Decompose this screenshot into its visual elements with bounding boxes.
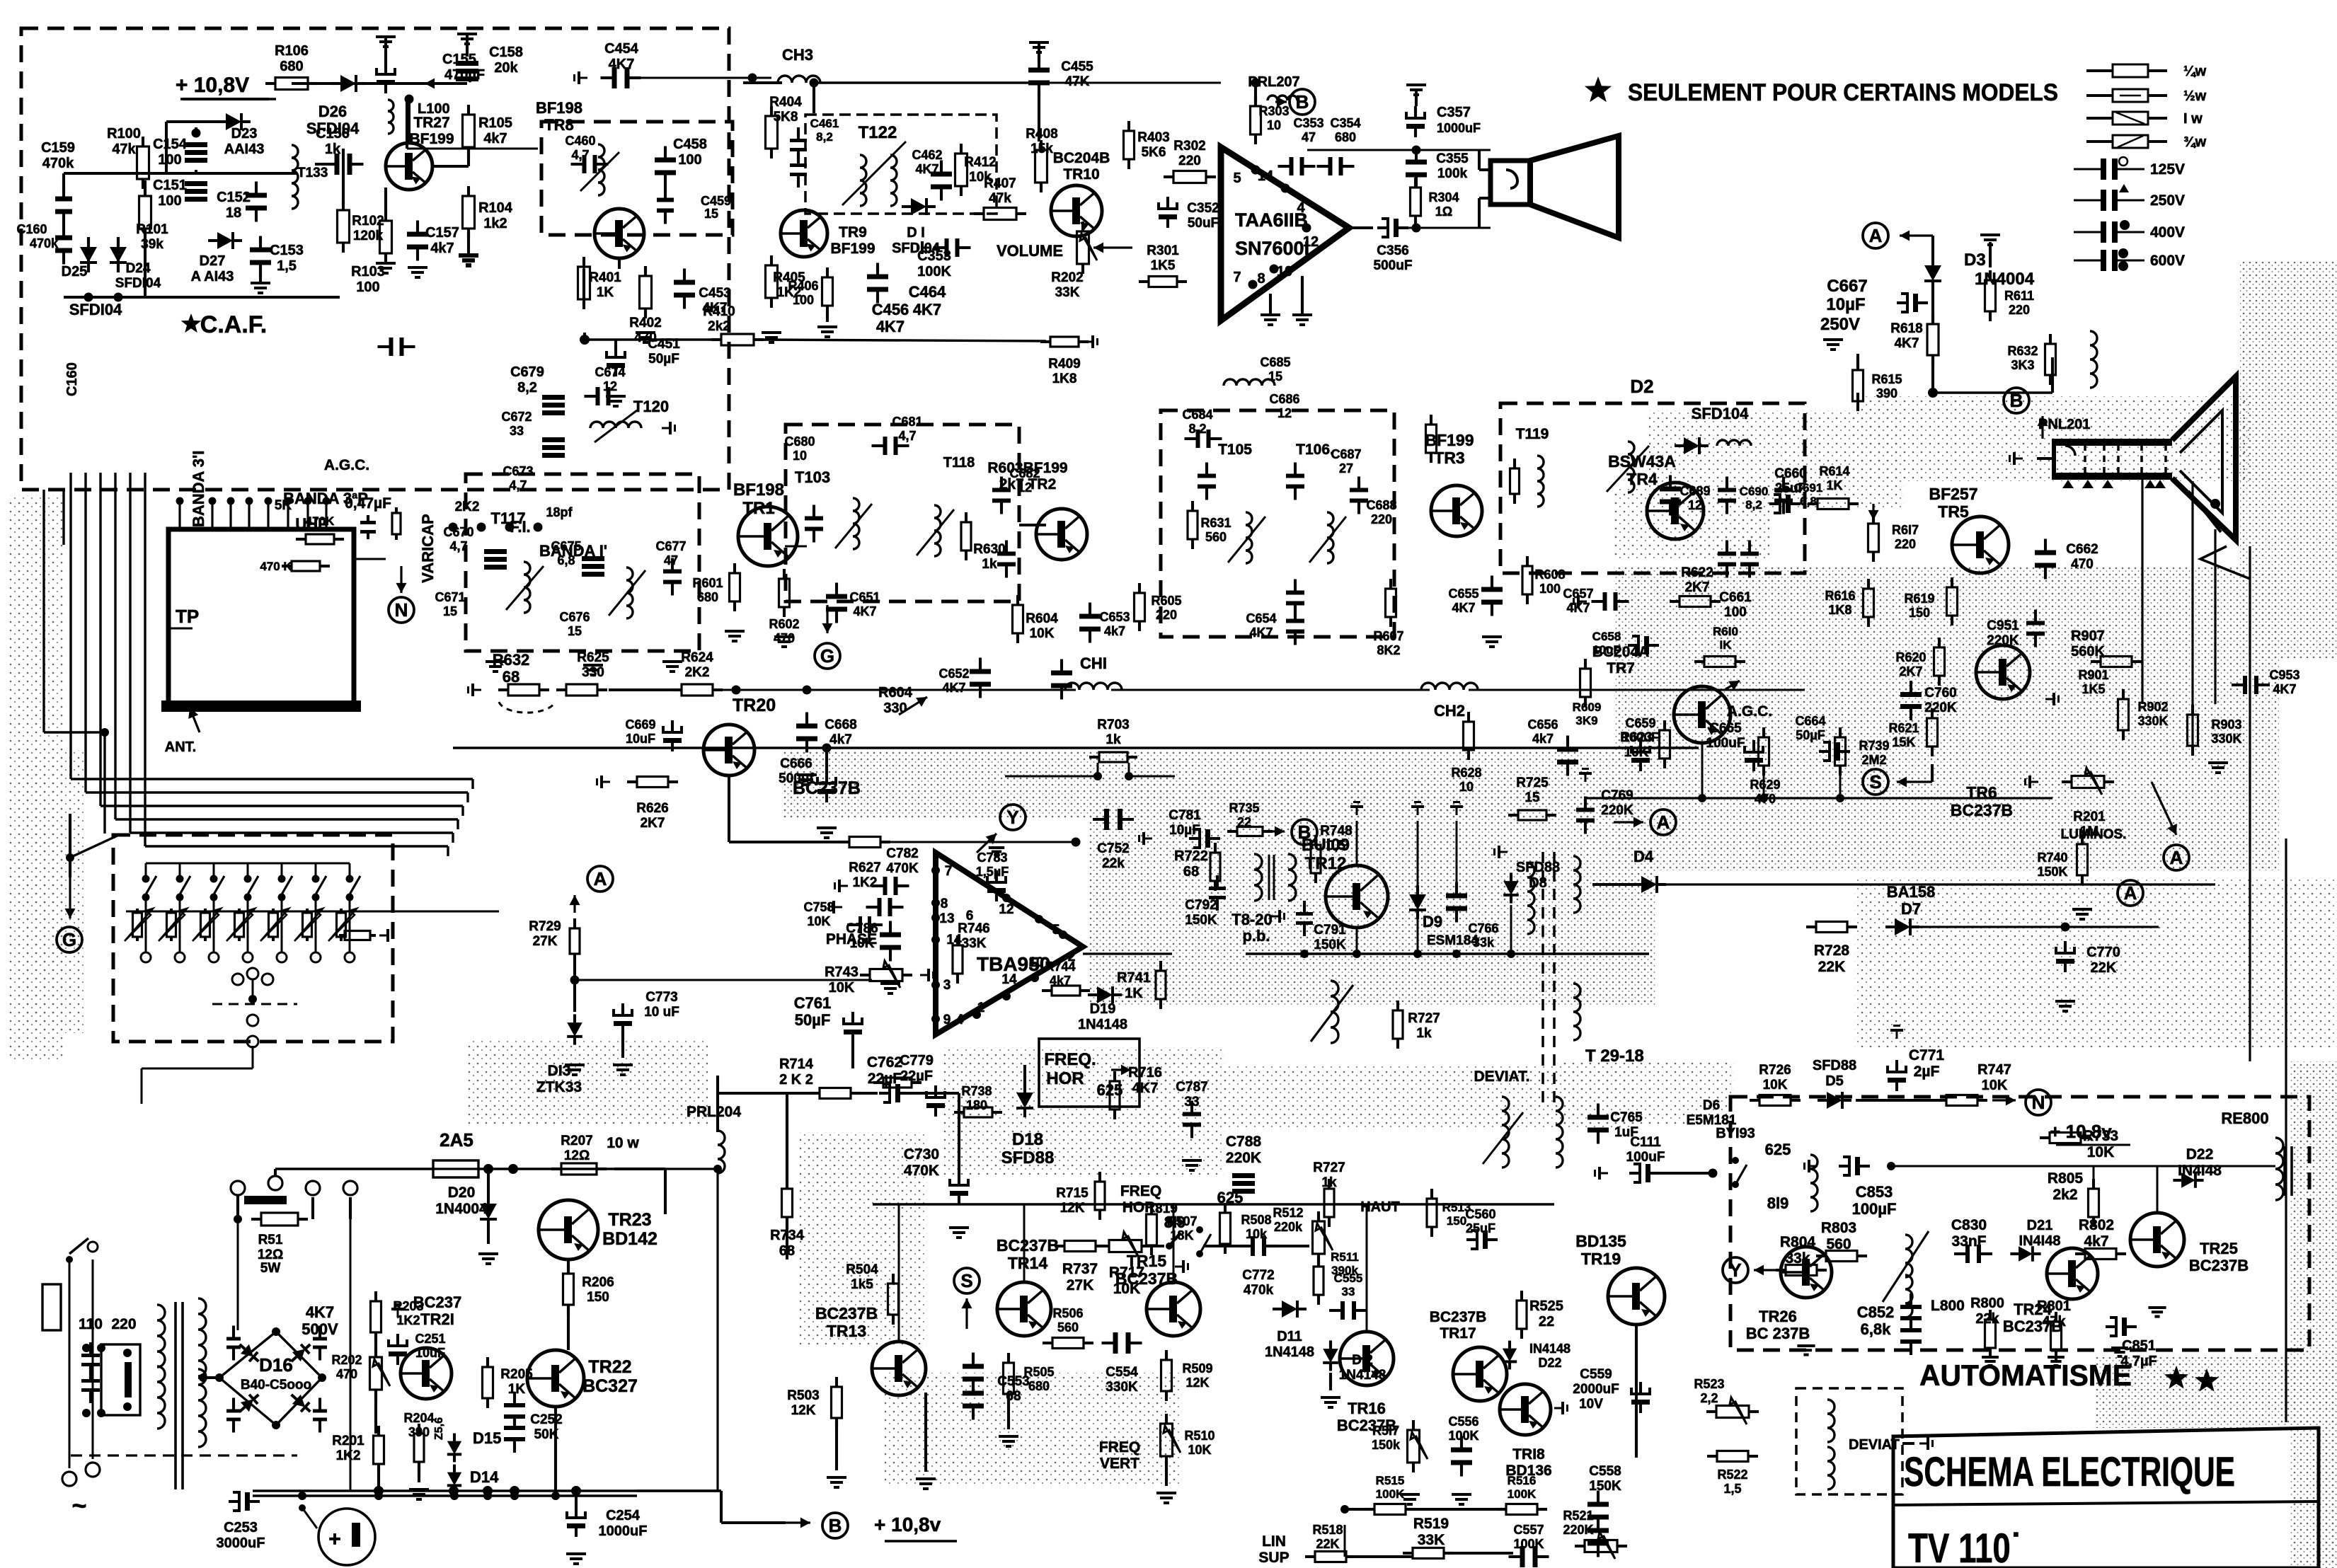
- svg-text:C460: C460: [565, 134, 595, 148]
- svg-text:B: B: [2010, 390, 2023, 411]
- svg-text:T 29-18: T 29-18: [1585, 1047, 1644, 1066]
- svg-text:D14: D14: [470, 1468, 499, 1486]
- svg-text:15K: 15K: [1892, 735, 1915, 749]
- svg-text:150K: 150K: [1185, 913, 1217, 928]
- svg-text:R902: R902: [2137, 700, 2168, 714]
- svg-text:T103: T103: [795, 468, 830, 486]
- svg-text:50µF: 50µF: [648, 352, 679, 367]
- svg-text:2K7: 2K7: [641, 816, 665, 831]
- svg-text:R740: R740: [2037, 851, 2067, 865]
- svg-text:ZTK33: ZTK33: [536, 1079, 582, 1095]
- svg-text:R506: R506: [1052, 1306, 1083, 1320]
- svg-text:R104: R104: [478, 200, 513, 216]
- svg-text:R614: R614: [1819, 464, 1849, 478]
- svg-text:R727: R727: [1408, 1011, 1440, 1026]
- svg-text:C653: C653: [1099, 610, 1130, 624]
- svg-text:R201: R201: [2073, 809, 2106, 824]
- svg-text:R907: R907: [2071, 628, 2105, 644]
- svg-text:T119: T119: [1516, 426, 1549, 442]
- svg-text:150: 150: [1909, 606, 1930, 620]
- svg-text:330: 330: [582, 665, 604, 680]
- svg-text:20k: 20k: [494, 60, 518, 76]
- svg-text:C151: C151: [153, 178, 187, 193]
- svg-text:R739: R739: [1859, 739, 1889, 753]
- svg-text:R403: R403: [1137, 130, 1169, 145]
- svg-text:TR13: TR13: [827, 1322, 866, 1340]
- svg-text:R301: R301: [1147, 243, 1179, 258]
- svg-text:R505: R505: [1023, 1365, 1054, 1379]
- svg-text:500V: 500V: [302, 1320, 338, 1338]
- svg-text:C830: C830: [1951, 1217, 1987, 1233]
- svg-text:D2: D2: [1630, 376, 1653, 397]
- svg-text:IN4148: IN4148: [1529, 1342, 1571, 1356]
- svg-text:B: B: [1296, 91, 1309, 113]
- svg-text:10V: 10V: [1579, 1397, 1603, 1412]
- svg-text:8: 8: [941, 897, 948, 911]
- svg-text:T133: T133: [297, 166, 328, 180]
- svg-text:+ 10,8v: + 10,8v: [2050, 1121, 2112, 1142]
- svg-text:C691: C691: [1794, 481, 1823, 495]
- svg-text:100K: 100K: [1513, 1537, 1544, 1551]
- svg-text:470 K: 470 K: [260, 560, 292, 573]
- svg-text:ANT.: ANT.: [165, 739, 196, 755]
- svg-text:SN7600I: SN7600I: [1235, 238, 1309, 259]
- svg-text:D I: D I: [907, 225, 925, 241]
- svg-text:R716: R716: [1128, 1065, 1162, 1080]
- svg-text:IN4I48: IN4I48: [2178, 1163, 2222, 1179]
- svg-text:5: 5: [1233, 171, 1241, 186]
- svg-text:TR10: TR10: [1063, 166, 1099, 183]
- svg-text:Y: Y: [1006, 807, 1018, 828]
- svg-text:10K: 10K: [1982, 1078, 2008, 1093]
- svg-text:R621: R621: [1888, 721, 1919, 735]
- svg-text:R611: R611: [2004, 289, 2034, 303]
- svg-text:C461: C461: [810, 117, 839, 130]
- svg-text:TR26: TR26: [1759, 1308, 1797, 1325]
- svg-text:R620: R620: [1895, 650, 1926, 664]
- svg-text:R518: R518: [1312, 1523, 1343, 1537]
- svg-text:C766: C766: [1468, 921, 1498, 935]
- svg-text:560: 560: [1057, 1320, 1079, 1334]
- svg-text:TR27: TR27: [413, 115, 449, 131]
- svg-text:C681: C681: [892, 415, 922, 429]
- svg-text:100: 100: [793, 293, 814, 307]
- svg-text:15: 15: [443, 604, 457, 618]
- svg-text:250V: 250V: [1820, 315, 1860, 334]
- svg-text:R205: R205: [500, 1367, 533, 1382]
- svg-text:C554: C554: [1106, 1365, 1138, 1380]
- svg-text:10uF: 10uF: [626, 732, 655, 746]
- svg-text:A: A: [2170, 847, 2183, 868]
- svg-text:BC 237B: BC 237B: [1746, 1325, 1810, 1342]
- svg-text:22k: 22k: [1102, 856, 1125, 871]
- svg-text:6,8: 6,8: [557, 553, 575, 567]
- svg-text:R746: R746: [958, 921, 989, 936]
- svg-text:BC327: BC327: [582, 1376, 638, 1396]
- svg-text:A: A: [594, 868, 607, 889]
- svg-text:R407: R407: [984, 176, 1016, 191]
- svg-text:Z5,6: Z5,6: [433, 1417, 445, 1440]
- svg-text:R803: R803: [1821, 1220, 1856, 1236]
- svg-text:R106: R106: [275, 43, 309, 59]
- svg-text:C152: C152: [217, 190, 251, 205]
- svg-text:R607: R607: [1373, 629, 1403, 643]
- svg-text:C252: C252: [530, 1412, 562, 1427]
- svg-text:3000uF: 3000uF: [217, 1535, 265, 1551]
- svg-text:C254: C254: [606, 1508, 641, 1523]
- svg-text:D23: D23: [231, 126, 258, 142]
- svg-text:C769: C769: [1601, 788, 1633, 803]
- svg-text:8,2: 8,2: [1188, 422, 1206, 436]
- svg-text:180: 180: [966, 1098, 987, 1112]
- svg-text:100K: 100K: [1508, 1487, 1537, 1501]
- svg-text:R51: R51: [258, 1233, 283, 1247]
- svg-text:R503: R503: [787, 1388, 819, 1403]
- svg-text:BC204A: BC204A: [1592, 644, 1650, 660]
- svg-text:12K: 12K: [1185, 1376, 1209, 1390]
- svg-text:100: 100: [678, 152, 701, 168]
- svg-text:4,7: 4,7: [571, 148, 589, 162]
- svg-text:560: 560: [1205, 530, 1227, 544]
- svg-text:D15: D15: [473, 1429, 501, 1447]
- svg-text:R629: R629: [1750, 778, 1780, 792]
- svg-text:R623: R623: [1620, 730, 1652, 745]
- svg-text:4K7: 4K7: [2273, 682, 2296, 696]
- svg-text:R304: R304: [1428, 190, 1459, 204]
- svg-text:C655: C655: [1448, 587, 1478, 601]
- svg-text:7: 7: [1233, 270, 1241, 285]
- svg-text:D18: D18: [1012, 1130, 1043, 1149]
- svg-text:10K: 10K: [807, 914, 830, 928]
- svg-text:10: 10: [1277, 264, 1292, 279]
- svg-text:C453: C453: [699, 286, 730, 301]
- svg-text:R714: R714: [779, 1056, 814, 1072]
- svg-text:100: 100: [158, 193, 181, 209]
- svg-text:1K2: 1K2: [336, 1448, 361, 1463]
- svg-text:BC237B: BC237B: [997, 1236, 1059, 1255]
- svg-text:B40-C5ooo: B40-C5ooo: [241, 1378, 311, 1393]
- svg-text:R619: R619: [1904, 592, 1934, 606]
- svg-text:R404: R404: [769, 95, 802, 110]
- svg-text:R703: R703: [1097, 717, 1129, 732]
- svg-text:BYI93: BYI93: [1716, 1126, 1755, 1141]
- svg-text:2k2: 2k2: [2052, 1187, 2077, 1203]
- svg-text:R715: R715: [1056, 1186, 1089, 1201]
- svg-text:1k5: 1k5: [851, 1277, 873, 1292]
- svg-text:D4: D4: [1633, 848, 1654, 865]
- svg-text:TR16: TR16: [1348, 1400, 1386, 1417]
- svg-text:T117: T117: [491, 509, 526, 527]
- svg-text:+ 10,8v: + 10,8v: [874, 1514, 941, 1535]
- svg-text:R738: R738: [961, 1084, 992, 1098]
- svg-text:R303: R303: [1258, 104, 1289, 118]
- svg-text:R511: R511: [1331, 1250, 1359, 1264]
- svg-text:R302: R302: [1173, 139, 1205, 154]
- svg-text:C688: C688: [1366, 498, 1396, 512]
- svg-text:33: 33: [1342, 1285, 1355, 1298]
- svg-text:R622: R622: [1681, 565, 1713, 580]
- svg-text:R628: R628: [1451, 766, 1481, 780]
- svg-text:HOR: HOR: [1046, 1069, 1084, 1088]
- svg-text:TR3: TR3: [1434, 449, 1464, 467]
- svg-text:12K: 12K: [791, 1403, 816, 1418]
- svg-text:C673: C673: [503, 464, 533, 478]
- svg-text:R725: R725: [1516, 776, 1549, 790]
- svg-text:5K6: 5K6: [1142, 145, 1166, 160]
- svg-text:4k7: 4k7: [1104, 624, 1125, 638]
- svg-text:500uF: 500uF: [1374, 258, 1413, 273]
- svg-text:R722: R722: [1174, 848, 1208, 864]
- svg-text:TR9: TR9: [839, 224, 867, 241]
- svg-text:C758: C758: [803, 900, 834, 914]
- svg-text:12: 12: [1688, 498, 1702, 512]
- svg-text:2 K 2: 2 K 2: [779, 1072, 813, 1088]
- svg-text:D5: D5: [1825, 1073, 1844, 1089]
- svg-text:R508: R508: [1241, 1213, 1271, 1227]
- svg-text:CHI: CHI: [1080, 655, 1107, 672]
- svg-text:ESM184: ESM184: [1427, 933, 1478, 948]
- svg-text:2k7 TR2: 2k7 TR2: [999, 476, 1057, 492]
- svg-text:1K: 1K: [508, 1382, 526, 1397]
- svg-text:R605: R605: [1151, 594, 1181, 608]
- svg-text:10µF: 10µF: [1826, 295, 1865, 314]
- svg-text:6,8k: 6,8k: [1861, 1320, 1892, 1338]
- svg-text:1N4148: 1N4148: [1265, 1344, 1314, 1360]
- svg-text:p.b.: p.b.: [1242, 927, 1270, 945]
- svg-text:15: 15: [1268, 369, 1282, 384]
- svg-text:470k: 470k: [42, 156, 74, 171]
- svg-text:C156: C156: [316, 126, 350, 142]
- svg-text:C674: C674: [595, 365, 625, 379]
- svg-text:C852: C852: [1857, 1303, 1895, 1321]
- svg-text:1000uF: 1000uF: [1437, 121, 1481, 135]
- svg-text:T8-20: T8-20: [1231, 911, 1272, 928]
- svg-text:27K: 27K: [533, 934, 558, 949]
- svg-text:7: 7: [945, 864, 953, 879]
- svg-text:R901: R901: [2078, 668, 2108, 682]
- svg-text:R525: R525: [1529, 1298, 1563, 1314]
- svg-text:TR8: TR8: [544, 116, 574, 134]
- svg-text:C357: C357: [1437, 105, 1471, 120]
- svg-text:R522: R522: [1717, 1468, 1747, 1482]
- svg-text:R601: R601: [692, 576, 723, 590]
- svg-text:4K7: 4K7: [942, 681, 965, 695]
- svg-text:SFD88: SFD88: [1001, 1148, 1055, 1168]
- svg-text:220: 220: [1178, 154, 1201, 168]
- svg-text:R406: R406: [788, 279, 818, 293]
- svg-text:C675: C675: [551, 539, 581, 553]
- svg-text:R510: R510: [1184, 1429, 1215, 1443]
- svg-text:12K: 12K: [1060, 1201, 1085, 1216]
- svg-text:1N4148: 1N4148: [1078, 1017, 1127, 1032]
- svg-text:C667: C667: [1827, 277, 1867, 296]
- svg-text:C787: C787: [1176, 1080, 1207, 1095]
- svg-text:R729: R729: [529, 919, 561, 934]
- svg-text:R101: R101: [136, 222, 168, 237]
- svg-text:22K: 22K: [1818, 959, 1846, 975]
- svg-text:R519: R519: [1413, 1516, 1449, 1532]
- svg-text:R5I7: R5I7: [1372, 1424, 1399, 1438]
- svg-text:330K: 330K: [2137, 714, 2168, 728]
- svg-text:8,2: 8,2: [517, 380, 537, 396]
- svg-text:VOLUME: VOLUME: [997, 242, 1063, 260]
- svg-text:150K: 150K: [2037, 865, 2067, 879]
- svg-text:R743: R743: [825, 964, 859, 980]
- svg-text:4k7: 4k7: [2084, 1233, 2108, 1250]
- svg-text:C853: C853: [1856, 1183, 1893, 1201]
- svg-text:12Ω: 12Ω: [258, 1247, 283, 1262]
- svg-text:D16: D16: [259, 1354, 293, 1376]
- svg-text:C556: C556: [1448, 1414, 1478, 1429]
- svg-text:4k7: 4k7: [483, 131, 507, 146]
- svg-text:2,2: 2,2: [1700, 1391, 1718, 1405]
- svg-text:2K2: 2K2: [685, 665, 710, 680]
- svg-text:C464: C464: [909, 283, 946, 301]
- svg-text:1Ω: 1Ω: [1435, 204, 1452, 219]
- svg-text:R105: R105: [478, 115, 512, 131]
- svg-text:600V: 600V: [2150, 253, 2185, 269]
- svg-text:G: G: [820, 645, 834, 667]
- svg-text:10: 10: [1459, 780, 1474, 794]
- svg-text:BC237B: BC237B: [815, 1304, 878, 1322]
- svg-text:27: 27: [1339, 461, 1353, 475]
- svg-text:27K: 27K: [1067, 1277, 1094, 1293]
- svg-text:C352: C352: [1187, 201, 1219, 216]
- svg-text:R632: R632: [493, 651, 530, 669]
- svg-text:10K: 10K: [829, 980, 855, 996]
- svg-text:D22: D22: [1538, 1356, 1561, 1370]
- svg-text:VERT: VERT: [1100, 1455, 1139, 1472]
- svg-text:250V: 250V: [2150, 192, 2185, 209]
- svg-text:¾w: ¾w: [2183, 134, 2207, 150]
- svg-text:C686: C686: [1269, 392, 1299, 406]
- svg-text:LIN: LIN: [1262, 1533, 1286, 1550]
- svg-text:C791: C791: [1314, 923, 1346, 938]
- svg-text:22: 22: [1539, 1314, 1554, 1330]
- svg-text:R632: R632: [2007, 344, 2038, 358]
- svg-text:BC237B: BC237B: [1115, 1269, 1178, 1288]
- svg-text:S: S: [1869, 771, 1881, 792]
- svg-text:R512: R512: [1273, 1206, 1303, 1220]
- svg-text:1N4004: 1N4004: [1975, 270, 2035, 289]
- svg-text:R201: R201: [332, 1434, 364, 1448]
- svg-text:100K: 100K: [917, 264, 951, 279]
- svg-text:470: 470: [2071, 557, 2094, 572]
- svg-text:C661: C661: [1719, 590, 1752, 605]
- svg-text:10uF: 10uF: [415, 1346, 445, 1360]
- svg-text:100µF: 100µF: [1852, 1200, 1897, 1218]
- svg-text:1K: 1K: [1826, 478, 1842, 492]
- svg-text:R735: R735: [1229, 801, 1259, 815]
- svg-text:R727: R727: [1313, 1160, 1345, 1175]
- svg-text:C454: C454: [604, 41, 639, 57]
- svg-text:R516: R516: [1508, 1474, 1537, 1487]
- svg-text:C157: C157: [425, 225, 459, 241]
- svg-text:33K: 33K: [1055, 285, 1080, 300]
- svg-text:1,5: 1,5: [1723, 1482, 1741, 1496]
- svg-text:C153: C153: [270, 243, 304, 258]
- svg-text:2A5: 2A5: [440, 1129, 473, 1151]
- svg-text:C672: C672: [501, 410, 532, 424]
- svg-text:10: 10: [793, 449, 807, 463]
- svg-text:4K7: 4K7: [915, 162, 938, 176]
- svg-text:6,8: 6,8: [1800, 495, 1817, 508]
- svg-text:C459: C459: [701, 194, 731, 208]
- svg-text:500uf: 500uf: [779, 771, 814, 786]
- svg-text:13: 13: [939, 911, 954, 926]
- svg-text:C690: C690: [1740, 485, 1769, 498]
- svg-text:4,7: 4,7: [509, 478, 527, 492]
- svg-text:R624: R624: [681, 650, 713, 665]
- svg-text:1K5: 1K5: [1151, 258, 1176, 273]
- svg-text:D3: D3: [1964, 250, 1986, 270]
- svg-text:390: 390: [1876, 386, 1897, 400]
- svg-text:C560: C560: [1465, 1207, 1495, 1221]
- svg-text:470k: 470k: [1244, 1283, 1274, 1298]
- svg-text:390k: 390k: [1331, 1264, 1358, 1277]
- svg-text:10K: 10K: [2087, 1144, 2115, 1160]
- svg-text:R507: R507: [1166, 1214, 1197, 1228]
- svg-text:220k: 220k: [1274, 1220, 1303, 1234]
- svg-text:R631: R631: [1200, 516, 1231, 530]
- svg-text:C662: C662: [2066, 542, 2098, 557]
- svg-text:BC204B: BC204B: [1053, 150, 1110, 166]
- svg-text:10: 10: [1267, 118, 1281, 132]
- svg-text:1,5µF: 1,5µF: [976, 865, 1009, 879]
- svg-text:8,2: 8,2: [1745, 498, 1762, 512]
- svg-text:TR5: TR5: [1938, 502, 1969, 521]
- svg-text:15: 15: [704, 207, 718, 221]
- svg-text:C760: C760: [1924, 686, 1956, 701]
- svg-text:C559: C559: [1580, 1367, 1612, 1382]
- svg-text:4K7: 4K7: [306, 1303, 334, 1321]
- svg-text:C761: C761: [794, 994, 832, 1012]
- svg-text:22K: 22K: [1316, 1537, 1339, 1551]
- svg-text:R805: R805: [2048, 1170, 2084, 1187]
- svg-text:C788: C788: [1226, 1134, 1262, 1150]
- svg-text:R204: R204: [403, 1411, 434, 1425]
- svg-text:BD135: BD135: [1575, 1232, 1626, 1250]
- svg-text:BF198: BF198: [536, 99, 582, 117]
- svg-text:A AI43: A AI43: [191, 269, 234, 284]
- svg-text:R615: R615: [1871, 372, 1902, 386]
- svg-text:R412: R412: [964, 155, 996, 170]
- svg-text:R625: R625: [577, 650, 609, 665]
- svg-text:C781: C781: [1168, 808, 1201, 823]
- svg-text:R100: R100: [107, 126, 141, 142]
- svg-text:14: 14: [1001, 972, 1017, 987]
- svg-text:SCHEMA ELECTRIQUE: SCHEMA ELECTRIQUE: [1904, 1449, 2235, 1495]
- svg-text:A: A: [1657, 812, 1670, 833]
- svg-text:C770: C770: [2086, 945, 2120, 960]
- svg-text:A.G.C.: A.G.C.: [324, 457, 369, 473]
- svg-text:C752: C752: [1097, 841, 1129, 856]
- svg-text:TR19: TR19: [1581, 1250, 1621, 1268]
- svg-text:C356: C356: [1377, 243, 1408, 258]
- svg-text:100: 100: [158, 152, 181, 168]
- svg-text:10k: 10k: [1246, 1227, 1268, 1241]
- svg-text:TR22: TR22: [588, 1357, 631, 1377]
- svg-text:C782: C782: [886, 846, 918, 861]
- svg-text:100: 100: [1539, 582, 1561, 596]
- svg-text:D27: D27: [200, 253, 226, 269]
- svg-text:R402: R402: [629, 316, 661, 330]
- svg-text:N: N: [395, 599, 408, 621]
- svg-text:4K7: 4K7: [853, 604, 876, 618]
- svg-text:C557: C557: [1513, 1523, 1544, 1537]
- svg-text:BF199: BF199: [409, 131, 454, 147]
- svg-text:4k7: 4k7: [1532, 732, 1554, 746]
